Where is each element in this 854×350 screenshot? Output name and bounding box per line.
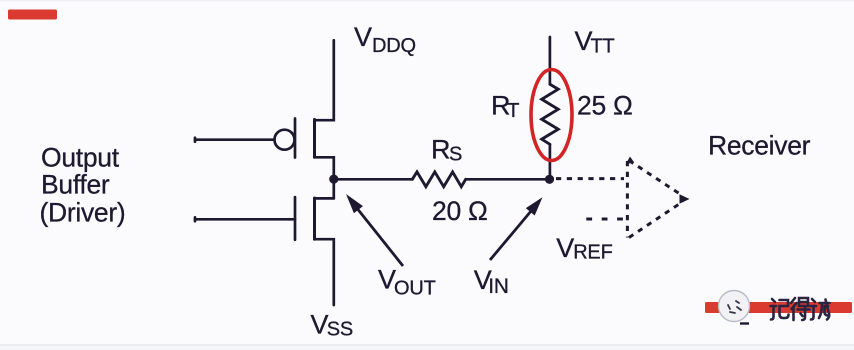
svg-text:V: V: [556, 233, 574, 263]
svg-text:Output: Output: [41, 143, 120, 173]
svg-text:SS: SS: [327, 318, 353, 340]
svg-text:Buffer: Buffer: [41, 170, 110, 200]
svg-text:V: V: [354, 22, 372, 52]
svg-text:IN: IN: [488, 275, 508, 298]
svg-text:OUT: OUT: [394, 278, 436, 300]
svg-text:20 Ω: 20 Ω: [432, 196, 487, 226]
svg-text:(Driver): (Driver): [40, 198, 126, 228]
svg-text:T: T: [507, 100, 519, 122]
svg-text:R: R: [431, 134, 451, 164]
svg-text:DDQ: DDQ: [372, 35, 416, 57]
svg-text:Receiver: Receiver: [708, 131, 811, 161]
svg-text:S: S: [449, 144, 462, 166]
svg-text:25 Ω: 25 Ω: [577, 90, 632, 120]
svg-text:TT: TT: [591, 35, 615, 57]
svg-text:REF: REF: [573, 242, 612, 264]
